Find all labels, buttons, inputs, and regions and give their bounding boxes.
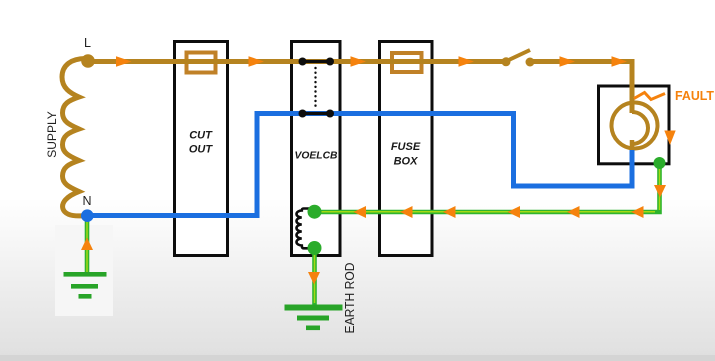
cut out box bbox=[175, 42, 228, 256]
voelcb box bbox=[292, 42, 341, 256]
voelcb bottom contact bbox=[299, 110, 335, 118]
node N bbox=[81, 209, 94, 222]
wire earth rod drop (green) bbox=[312, 248, 317, 305]
arrow supply earth (up) bbox=[81, 238, 93, 251]
node load earth (green) bbox=[654, 157, 666, 169]
voelcb trip coil bbox=[296, 209, 314, 249]
arrow earth run 1 (left) bbox=[631, 206, 644, 218]
node coil bottom (green) bbox=[308, 241, 322, 255]
arrow earth run 4 (left) bbox=[443, 206, 456, 218]
arrow live 6 bbox=[612, 56, 628, 67]
wire live L run (brown) bbox=[88, 62, 632, 114]
node L bbox=[81, 54, 95, 68]
svg-text:L: L bbox=[84, 36, 91, 50]
svg-text:OUT: OUT bbox=[189, 143, 214, 155]
switch S1 bbox=[502, 50, 535, 67]
svg-text:FAULT: FAULT bbox=[675, 88, 714, 103]
svg-text:SUPPLY: SUPPLY bbox=[45, 111, 59, 157]
arrow earth rod (down) bbox=[308, 272, 320, 285]
ground supply bbox=[64, 272, 107, 299]
fault zigzag bbox=[634, 93, 665, 100]
arrow live 1 bbox=[116, 56, 132, 67]
arrow live 4 bbox=[459, 56, 475, 67]
ground earth rod bbox=[285, 305, 343, 331]
load box bbox=[599, 86, 670, 164]
arrow fault case (orange, down) bbox=[664, 131, 675, 146]
svg-text:FUSE: FUSE bbox=[391, 141, 421, 153]
arrow live 5 bbox=[560, 56, 576, 67]
svg-text:BOX: BOX bbox=[394, 156, 419, 168]
arrow earth run 5 (left) bbox=[400, 206, 413, 218]
fuse box bbox=[380, 42, 433, 256]
arrow earth drop right (down) bbox=[654, 185, 666, 198]
svg-text:EARTH ROD: EARTH ROD bbox=[343, 263, 357, 334]
svg-text:VOELCB: VOELCB bbox=[295, 150, 338, 162]
wire earth main run (green) bbox=[314, 163, 660, 212]
fuse F2 (fuse box) bbox=[392, 53, 422, 72]
arrow earth run 6 (left) bbox=[354, 206, 367, 218]
wire neutral (blue) bbox=[86, 114, 632, 216]
fuse F1 (cut out) bbox=[187, 53, 216, 73]
voelcb top contact bbox=[299, 58, 335, 66]
lamp load bbox=[612, 103, 658, 152]
arrow live 3 bbox=[351, 56, 367, 67]
svg-text:N: N bbox=[82, 194, 91, 208]
arrow earth run 3 (left) bbox=[508, 206, 521, 218]
voelcb trip dotted link bbox=[314, 68, 316, 108]
supply coil bbox=[62, 58, 87, 215]
svg-text:CUT: CUT bbox=[189, 129, 213, 141]
node coil top (green) bbox=[308, 205, 322, 219]
arrow earth run 2 (left) bbox=[567, 206, 580, 218]
wire supply earth (green) bbox=[85, 218, 90, 273]
arrow live 2 bbox=[249, 56, 265, 67]
